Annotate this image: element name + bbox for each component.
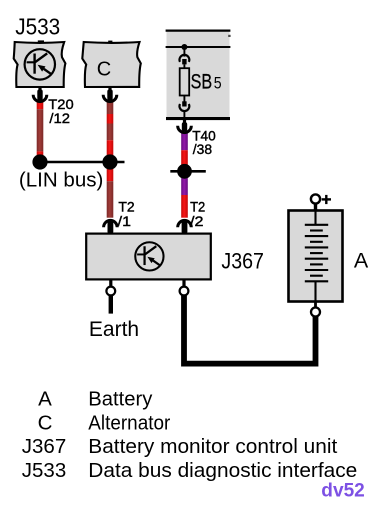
svg-text:(LIN bus): (LIN bus): [19, 169, 104, 191]
svg-text:5: 5: [214, 75, 222, 93]
svg-text:/38: /38: [193, 141, 213, 157]
svg-text:C: C: [97, 59, 111, 81]
svg-text:/12: /12: [49, 110, 70, 126]
svg-text:/1: /1: [118, 213, 132, 229]
svg-text:Earth: Earth: [89, 318, 139, 341]
svg-text:J367: J367: [22, 435, 66, 458]
svg-text:C: C: [38, 411, 53, 434]
svg-text:A: A: [354, 249, 369, 273]
svg-text:A: A: [38, 388, 52, 411]
svg-text:SB: SB: [191, 71, 213, 94]
svg-text:J367: J367: [221, 248, 264, 273]
svg-text:/2: /2: [190, 213, 204, 229]
svg-text:Battery monitor control unit: Battery monitor control unit: [88, 435, 337, 458]
svg-text:Data bus diagnostic interface: Data bus diagnostic interface: [88, 459, 357, 482]
svg-text:Battery: Battery: [88, 388, 153, 411]
svg-text:dv52: dv52: [321, 479, 365, 501]
svg-text:J533: J533: [15, 14, 60, 40]
svg-text:Alternator: Alternator: [88, 411, 170, 434]
svg-text:J533: J533: [22, 459, 66, 482]
